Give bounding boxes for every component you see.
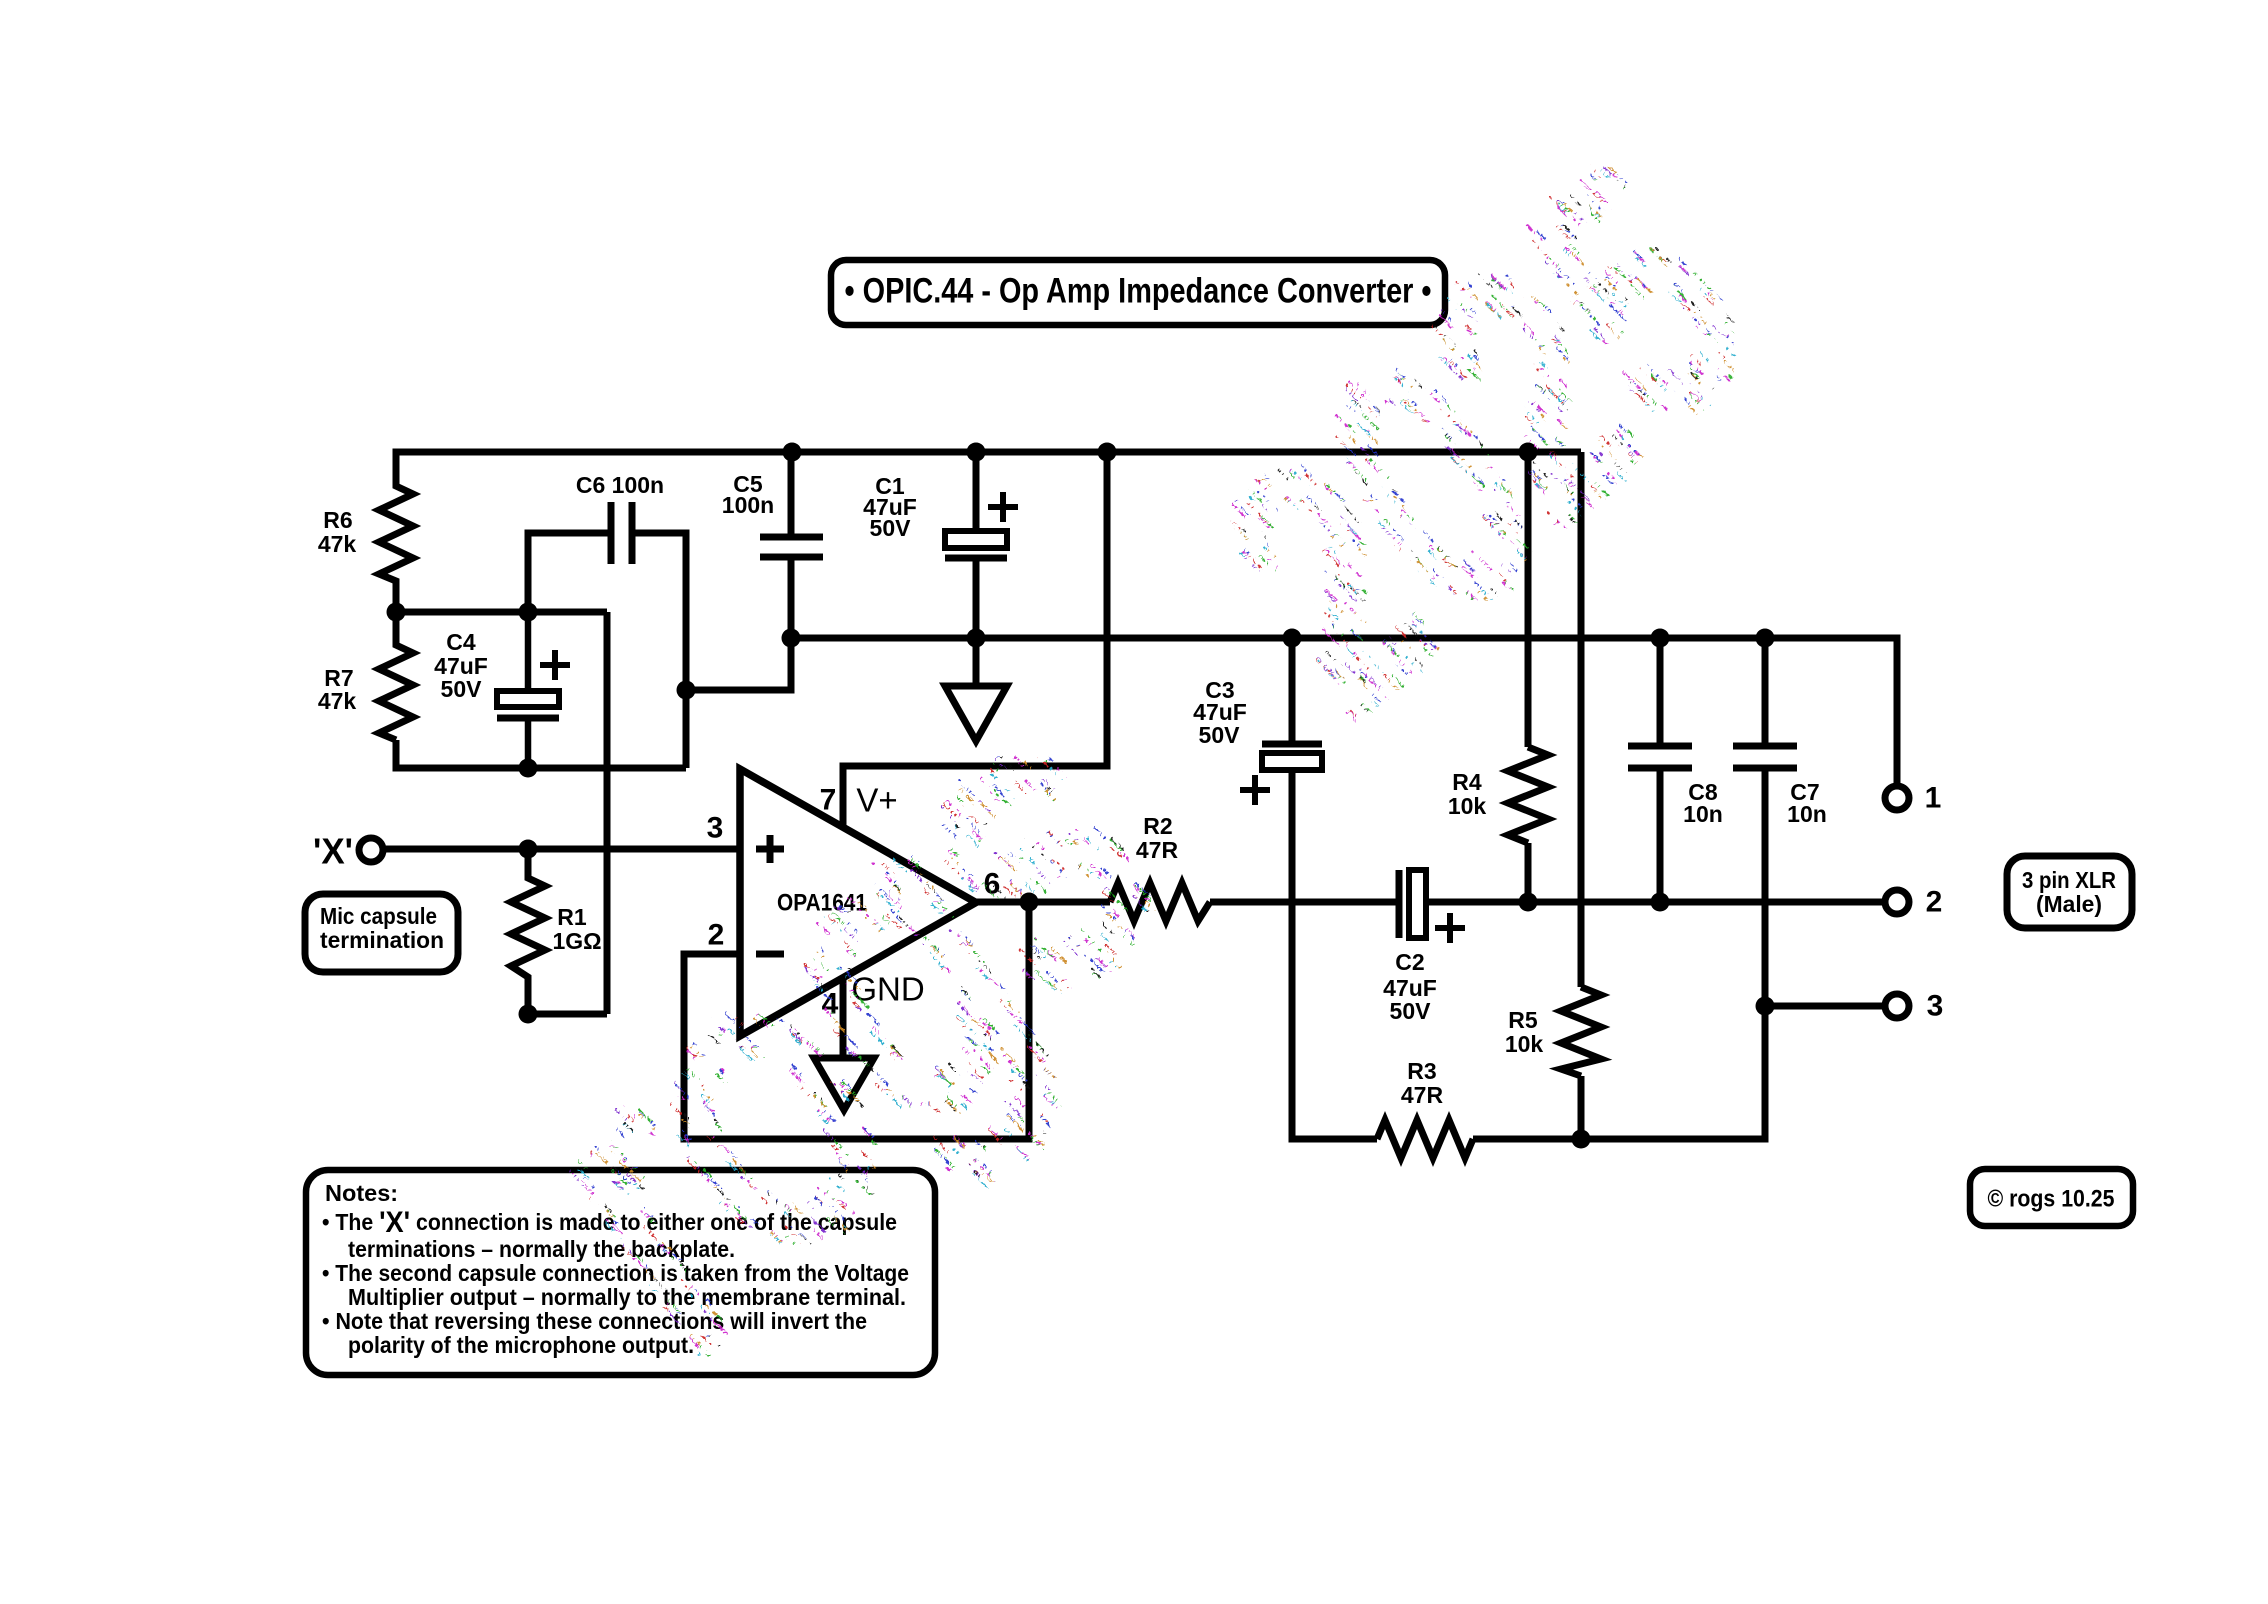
junction top-rail/C1	[967, 443, 986, 462]
junction bottom loop/R5	[1572, 1130, 1591, 1149]
resistor R6 47k	[379, 452, 413, 612]
svg-text:C6 100n: C6 100n	[576, 472, 664, 498]
title box	[831, 260, 1445, 325]
junction C7/terminal-3 wire	[1756, 997, 1775, 1016]
junction ground rail/C1 bottom	[967, 629, 986, 648]
op-amp U1 OPA1641	[740, 769, 976, 1036]
svg-text:R3: R3	[1407, 1058, 1436, 1084]
wire: bias node horizontal	[396, 609, 607, 616]
svg-text:10k: 10k	[1448, 793, 1487, 819]
svg-text:2: 2	[1926, 886, 1943, 919]
junction C6 drop/ground link	[677, 681, 696, 700]
capacitor C4 47uF	[497, 612, 570, 768]
junction top-rail/V+ drop	[1098, 443, 1117, 462]
junction wire2/C8 bottom	[1651, 893, 1670, 912]
junction top-rail/R4	[1519, 443, 1538, 462]
wire: C8 vertical lower	[1657, 768, 1664, 902]
svg-text:3: 3	[1927, 990, 1944, 1023]
3 pin XLR box	[2007, 856, 2132, 928]
svg-text:50V: 50V	[870, 515, 912, 541]
svg-text:R6: R6	[323, 507, 352, 533]
wire: R1 bottom link	[528, 1011, 607, 1018]
wire: input X to pin 3	[384, 846, 740, 853]
capacitor C7 10n	[1733, 746, 1797, 768]
svg-text:© rogs 10.25: © rogs 10.25	[1988, 1186, 2115, 1213]
svg-text:R4: R4	[1452, 769, 1482, 795]
wire: pin 4 to ground	[840, 978, 847, 1058]
svg-text:10n: 10n	[1683, 801, 1723, 827]
wire: R5 vertical from top rail	[1578, 452, 1585, 987]
wire: C1 stem upper	[973, 452, 980, 531]
wire: C6 left feed	[528, 533, 611, 612]
watermark rogs 2025	[429, 97, 1813, 1415]
junction bias/C4 top	[519, 603, 538, 622]
wire: C5 stem lower	[788, 557, 795, 690]
wire: bias to R1-bottom vertical	[604, 612, 611, 1014]
node bias R6/R7	[387, 603, 406, 622]
resistor R4 10k	[1508, 747, 1548, 843]
svg-text:3 pin XLR: 3 pin XLR	[2022, 867, 2116, 893]
svg-text:100n: 100n	[722, 492, 774, 518]
wire: R5 vertical lower	[1578, 1076, 1585, 1139]
wire: bottom-left ground rail	[396, 740, 686, 768]
wire: C5 stem upper	[788, 452, 795, 537]
svg-text:50V: 50V	[1390, 998, 1432, 1024]
wire: C2 to terminal 2	[1426, 899, 1885, 906]
wire: ground link C6/C5	[686, 638, 791, 690]
svg-text:10n: 10n	[1787, 801, 1827, 827]
svg-text:R1: R1	[557, 904, 587, 930]
svg-text:'X': 'X'	[313, 831, 353, 872]
junction ground rail/C8	[1651, 629, 1670, 648]
junction input/R1 top	[519, 840, 538, 859]
svg-text:47k: 47k	[318, 688, 357, 714]
svg-text:Mic capsule: Mic capsule	[320, 903, 437, 929]
svg-text:47k: 47k	[318, 531, 357, 557]
wire: C6 right drop	[632, 533, 686, 768]
svg-text:50V: 50V	[1199, 722, 1241, 748]
wire: C3 vertical top	[1289, 638, 1296, 741]
pin numbers	[707, 782, 1944, 1023]
svg-text:C2: C2	[1395, 949, 1424, 975]
wire: V+ drop to pin 7	[843, 452, 1107, 828]
ground symbol under op-amp	[814, 1058, 874, 1110]
junction wire2/R4 bottom	[1519, 893, 1538, 912]
svg-text:10k: 10k	[1505, 1031, 1544, 1057]
wire: pin 2 feedback loop	[684, 902, 1029, 1139]
terminal 2	[1885, 890, 1909, 914]
svg-text:50V: 50V	[441, 676, 483, 702]
wire: R4 vertical lower	[1525, 843, 1532, 902]
terminal 3	[1885, 994, 1909, 1018]
junction ground rail/C7	[1756, 629, 1775, 648]
wire: C1 stem lower	[973, 561, 980, 638]
svg-text:R5: R5	[1508, 1007, 1538, 1033]
mic capsule termination box	[305, 894, 458, 972]
svg-text:47R: 47R	[1401, 1082, 1444, 1108]
junction C4 bottom/ground	[519, 759, 538, 778]
svg-text:(Male): (Male)	[2036, 891, 2102, 917]
notes box	[306, 1170, 935, 1375]
wire: top V+ rail	[396, 452, 1581, 455]
capacitor C5 100n	[760, 537, 823, 557]
junction top-rail/C5	[783, 443, 802, 462]
junction C5 bottom/ground rail	[782, 629, 801, 648]
junction R1 bottom	[519, 1005, 538, 1024]
junction output/feedback	[1020, 893, 1039, 912]
copyright box	[1970, 1169, 2133, 1226]
ground symbol under C1	[945, 686, 1007, 741]
resistor R3 47R	[1377, 1120, 1473, 1158]
wire: R2 to C2	[1210, 899, 1396, 906]
wire: R4 vertical upper	[1525, 452, 1532, 747]
svg-text:C4: C4	[446, 629, 476, 655]
svg-text:Notes:: Notes:	[325, 1180, 398, 1206]
capacitor C2 47uF	[1399, 870, 1465, 943]
wire: C7 top stub	[1762, 638, 1769, 746]
wire: terminal 3 stub	[1765, 1003, 1885, 1010]
svg-text:1: 1	[1925, 782, 1942, 815]
capacitor C8 10n	[1628, 746, 1692, 768]
wire: output to R2	[976, 899, 1110, 906]
wire: ground symbol stem under C1	[973, 638, 980, 686]
resistor R7 47k	[379, 612, 413, 740]
capacitor C1 47uF	[945, 492, 1018, 558]
svg-text:2025: 2025	[1141, 103, 1810, 763]
wire: R3 loop right to C7 drop	[1473, 768, 1765, 1139]
resistor R5 10k	[1561, 987, 1601, 1076]
capacitor C6 100n	[611, 502, 632, 564]
svg-text:termination: termination	[320, 927, 444, 953]
terminal 1	[1885, 786, 1909, 810]
wire: C8 vertical upper	[1657, 638, 1664, 746]
svg-text:R2: R2	[1143, 813, 1172, 839]
capacitor C3 47uF	[1240, 744, 1322, 805]
terminal X	[359, 838, 383, 862]
junction ground rail/C3 top	[1283, 629, 1302, 648]
wire: C3 vertical bottom to R3 loop	[1292, 770, 1377, 1139]
resistor R1 1G	[511, 849, 545, 1014]
svg-text:polarity of the microphone out: polarity of the microphone output.	[348, 1332, 694, 1358]
wire: ground rail	[791, 638, 1897, 786]
resistor R2 47R	[1110, 883, 1210, 921]
